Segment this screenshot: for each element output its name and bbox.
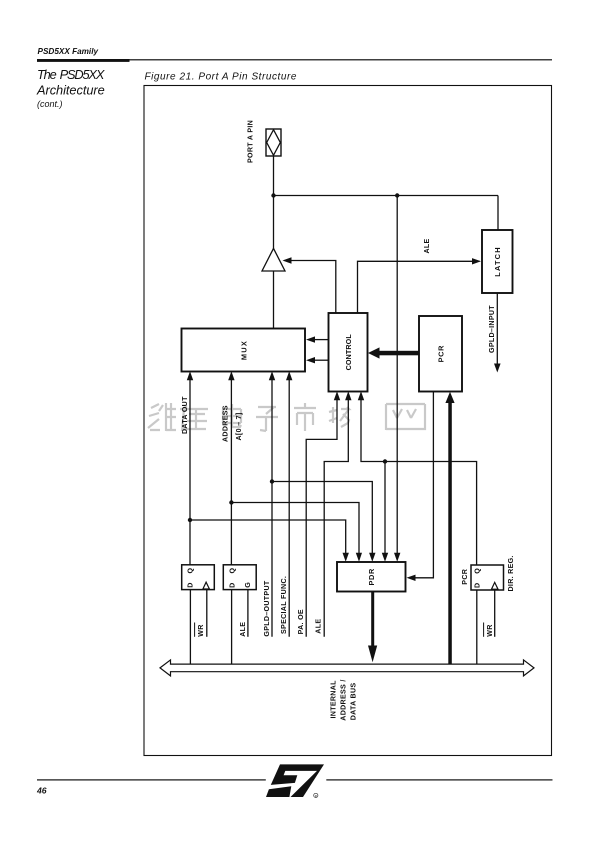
svg-text:Architecture: Architecture [36, 83, 105, 98]
label WR dff3 [484, 623, 494, 637]
junction pin to PDR [395, 193, 399, 197]
svg-text:ADDRESS: ADDRESS [222, 405, 230, 442]
svg-text:WR: WR [486, 624, 494, 636]
wire control to mux lower [313, 359, 329, 361]
wire pa oe to control [306, 399, 337, 637]
svg-text:D: D [187, 582, 195, 587]
wire dir reg branch to PDR [384, 462, 386, 555]
svg-text:GPLD–OUTPUT: GPLD–OUTPUT [263, 580, 271, 636]
wire MUX to buffer [273, 271, 275, 329]
wire data out DFF1 to MUX [189, 379, 191, 565]
svg-text:A[0 – 7]: A[0 – 7] [235, 412, 243, 440]
arrowhead data out into mux [187, 371, 193, 380]
internal address data bus [160, 660, 534, 676]
svg-text:Q: Q [473, 568, 481, 574]
wire DFF1 clock WR [206, 590, 208, 637]
arrowhead into mux upper [306, 336, 315, 342]
arrowhead pin into PDR [394, 553, 400, 562]
wire control to buffer enable [285, 261, 336, 314]
thick arrow PCR to CONTROL [377, 351, 419, 356]
svg-text:46: 46 [36, 786, 47, 796]
label WR dff1 [195, 623, 205, 637]
wire DFF1 D to bus [189, 590, 191, 665]
junction dir reg [383, 459, 387, 463]
label internal address data bus [330, 679, 358, 720]
wire gpld-output [271, 379, 273, 637]
control box [329, 313, 368, 392]
svg-text:PCR: PCR [437, 345, 446, 362]
wire address branch to PDR [231, 503, 359, 555]
wire control ALE to latch [358, 261, 480, 313]
svg-text:R: R [315, 794, 318, 798]
svg-text:PORT A PIN: PORT A PIN [247, 120, 255, 163]
wire DFF3 D to bus [476, 590, 478, 664]
wire gpld-output branch to PDR [272, 482, 372, 555]
wire DFF2 gate ALE [247, 590, 249, 637]
dff3 direction register [471, 565, 504, 590]
thick arrow bus up into PCR [448, 400, 452, 664]
arrowhead dir reg into control [358, 391, 364, 400]
pcr box [419, 316, 462, 392]
svg-text:MUX: MUX [240, 340, 249, 360]
dff2 ale latch register [223, 565, 256, 590]
wire DFF3 clock WR [494, 590, 496, 637]
svg-text:PA. OE: PA. OE [297, 609, 305, 634]
wire down to latch [497, 196, 499, 231]
svg-text:PSD5XX Family: PSD5XX Family [38, 47, 99, 56]
arrowhead dir into PDR [382, 553, 388, 562]
wire data out branch to PDR [190, 520, 346, 555]
wire special func [288, 379, 290, 637]
arrowhead ALE into latch [472, 258, 481, 264]
wire PCR to PDR [413, 392, 433, 578]
svg-text:ALE: ALE [314, 619, 322, 634]
svg-text:DIR. REG.: DIR. REG. [507, 555, 515, 591]
arrowhead into mux lower [306, 357, 315, 363]
ST logo [266, 764, 324, 797]
arrowhead address into mux [228, 371, 234, 380]
mux box [182, 329, 306, 372]
svg-text:ADDRESS /: ADDRESS / [340, 679, 348, 720]
wire address DFF2 to MUX [230, 379, 232, 565]
arrowhead ale into control [345, 391, 351, 400]
svg-text:ALE: ALE [239, 622, 247, 637]
latch box [482, 230, 513, 293]
wire pin row horizontal [274, 195, 499, 197]
svg-text:INTERNAL: INTERNAL [330, 680, 338, 719]
junction gpld-output [270, 479, 274, 483]
arrowhead GPLD input down [494, 364, 501, 373]
svg-text:PDR: PDR [367, 568, 376, 585]
wire pin to PDR [396, 196, 398, 555]
pdr box [337, 562, 406, 592]
svg-text:SPECIAL FUNC.: SPECIAL FUNC. [280, 576, 288, 634]
arrowhead address into PDR [356, 553, 362, 562]
arrowhead pa oe into control [334, 391, 340, 400]
arrowhead data out into PDR [343, 553, 349, 562]
footer rule [37, 779, 266, 780]
svg-text:(cont.): (cont.) [37, 99, 63, 109]
wire latch to GPLD input [496, 293, 498, 364]
arrowhead special func into mux [286, 371, 292, 380]
dff1 write register [182, 565, 215, 590]
svg-text:Q: Q [187, 568, 195, 574]
arrowhead PCR wire into PDR [407, 575, 416, 581]
svg-text:WR: WR [197, 624, 205, 636]
wire DFF2 D to bus [231, 590, 233, 665]
svg-text:LATCH: LATCH [493, 246, 502, 277]
arrowhead buffer enable [283, 257, 292, 263]
svg-text:DATA OUT: DATA OUT [181, 396, 189, 434]
wire ale to control [324, 399, 348, 637]
arrowhead gpld into PDR [369, 553, 375, 562]
watermark [148, 403, 425, 431]
svg-text:The PSD5XX: The PSD5XX [37, 67, 105, 82]
wire control to mux upper [313, 339, 329, 341]
output buffer [262, 248, 285, 271]
thick arrow PDR down to bus [371, 592, 374, 647]
junction address [229, 500, 233, 504]
arrowhead gpld into mux [269, 371, 275, 380]
svg-text:PCR: PCR [461, 569, 469, 585]
header rule [37, 59, 552, 60]
registered mark [314, 793, 318, 798]
svg-text:DATA BUS: DATA BUS [350, 683, 358, 721]
svg-text:Figure 21. Port A Pin Structu: Figure 21. Port A Pin Structure [145, 72, 297, 83]
svg-text:ALE: ALE [423, 238, 431, 253]
port A pin symbol [266, 129, 281, 156]
svg-text:CONTROL: CONTROL [344, 334, 353, 371]
junction pin node [271, 193, 275, 197]
junction data out [188, 518, 192, 522]
svg-text:D: D [473, 583, 481, 588]
svg-text:D: D [229, 582, 237, 587]
svg-text:Q: Q [229, 568, 237, 574]
wire pin to buffer [273, 156, 275, 249]
svg-text:G: G [244, 582, 252, 588]
svg-text:GPLD–INPUT: GPLD–INPUT [488, 305, 496, 353]
wire dir reg to control and PDR [361, 399, 477, 565]
